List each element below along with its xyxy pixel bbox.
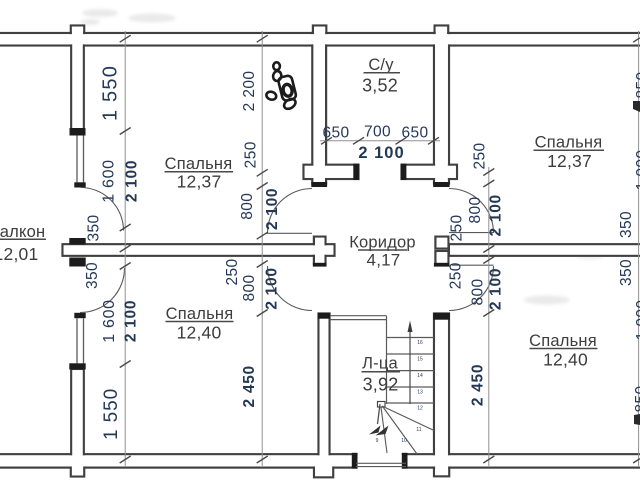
jamb bathroom door left — [353, 164, 359, 180]
svg-text:1 550: 1 550 — [101, 388, 122, 440]
wall: staircase east wall — [434, 314, 449, 468]
wall: middle wall left — [63, 244, 335, 256]
wall: bathroom east wall — [434, 33, 449, 184]
winder tread line 1 — [382, 406, 434, 431]
wall: bathroom west wall — [312, 33, 326, 184]
wall: balcony wall lower segment — [71, 369, 84, 464]
svg-text:800: 800 — [239, 193, 256, 220]
winder tread line 2 — [383, 407, 417, 454]
svg-text:2 450: 2 450 — [470, 364, 487, 406]
wall: bathroom south wall right segment — [402, 165, 458, 179]
svg-text:1 600: 1 600 — [101, 159, 118, 203]
jamb bathroom door right — [401, 164, 407, 180]
svg-text:12,37: 12,37 — [547, 151, 592, 171]
svg-text:10: 10 — [401, 438, 407, 444]
wall: top exterior wall — [0, 33, 640, 46]
jamb balcony wall above mid wall — [69, 238, 85, 245]
svg-text:3,52: 3,52 — [362, 76, 398, 96]
door leaf: corridor top-right — [449, 232, 494, 234]
window sill lines in bottom wall opening — [356, 463, 406, 466]
svg-text:3,92: 3,92 — [363, 375, 399, 395]
svg-text:12,40: 12,40 — [543, 350, 588, 370]
svg-text:350: 350 — [84, 262, 101, 289]
svg-text:Спальня: Спальня — [165, 155, 233, 173]
wall: pilaster above top wall centre — [313, 26, 326, 36]
window: balcony lower window glazing — [77, 318, 84, 363]
svg-text:2 100: 2 100 — [264, 188, 281, 230]
wall: pilaster above mid-left wall end — [314, 237, 326, 249]
jamb balcony window top — [70, 128, 86, 136]
svg-text:1 000: 1 000 — [634, 300, 640, 341]
svg-text:Балкон: Балкон — [0, 223, 45, 241]
dimension line left outer x=125 — [124, 31, 126, 466]
wall: pilaster above mid-right wall end — [435, 237, 448, 249]
jamb bottom opening left — [352, 453, 358, 469]
door leaf: corridor top-left — [267, 232, 313, 234]
door arc: corridor top-left — [268, 189, 313, 234]
svg-text:1 000: 1 000 — [634, 150, 640, 191]
wall: pilaster below mid-left wall end — [314, 251, 326, 264]
svg-text:2 100: 2 100 — [264, 267, 281, 309]
svg-text:800: 800 — [467, 196, 484, 223]
wall: bottom exterior wall — [0, 454, 640, 467]
svg-text:250: 250 — [243, 141, 260, 168]
stair newel post — [378, 402, 386, 408]
svg-text:12,40: 12,40 — [177, 323, 222, 343]
cut tick wedge top right — [633, 101, 640, 112]
jamb balcony lower door — [74, 313, 85, 318]
svg-text:2 100: 2 100 — [124, 160, 141, 202]
dimension line right outer x=638.6 — [638, 31, 640, 466]
svg-text:Спальня: Спальня — [535, 134, 603, 152]
dimension line right inner x=489 — [488, 167, 490, 466]
wall: bathroom south wall left segment — [304, 165, 359, 179]
wall: pilaster above top wall right — [435, 26, 449, 36]
wall: pilaster below bottom wall left — [71, 460, 84, 477]
svg-text:250: 250 — [448, 262, 465, 289]
door arc: corridor bottom-right — [449, 266, 494, 311]
stair landing edge — [330, 316, 387, 320]
svg-text:2 100: 2 100 — [488, 268, 505, 310]
svg-text:2 450: 2 450 — [241, 365, 258, 407]
svg-text:2 100: 2 100 — [123, 300, 140, 342]
svg-text:15: 15 — [417, 357, 423, 363]
jamb balcony lower window top — [69, 363, 85, 369]
svg-text:1 550: 1 550 — [100, 65, 122, 121]
wall: middle wall right — [449, 244, 640, 256]
svg-text:С/у: С/у — [368, 56, 394, 74]
door leaf: corridor bottom-right — [452, 264, 494, 266]
svg-text:1 600: 1 600 — [101, 299, 118, 343]
svg-text:2 200: 2 200 — [241, 71, 258, 112]
stair down arrow with zigzag head — [378, 404, 381, 424]
wall: staircase west wall — [319, 314, 330, 468]
door arc: balcony lower door — [80, 268, 125, 313]
svg-text:12: 12 — [417, 406, 423, 412]
svg-text:800: 800 — [470, 278, 487, 305]
svg-text:650: 650 — [401, 125, 428, 142]
svg-text:800: 800 — [241, 274, 258, 301]
dimension ticks — [120, 35, 640, 463]
wall: pilaster above top wall left — [71, 26, 84, 36]
wall: pilaster below bottom wall right — [434, 460, 449, 476]
svg-text:9: 9 — [376, 438, 379, 444]
svg-text:16: 16 — [417, 340, 423, 346]
dimension line left inner x=262 — [261, 31, 263, 466]
dimension line bathroom width chain — [320, 140, 440, 142]
svg-text:Спальня: Спальня — [166, 305, 234, 323]
opening in bottom wall (stair room door) — [358, 453, 402, 470]
jamb bottom opening right — [402, 453, 408, 469]
jamb below mid-right bump — [434, 263, 450, 267]
svg-text:250: 250 — [472, 142, 489, 169]
svg-text:250: 250 — [449, 214, 466, 241]
svg-text:850: 850 — [633, 385, 640, 412]
svg-text:14: 14 — [417, 373, 423, 379]
door arc: corridor bottom-left — [268, 266, 313, 311]
wall: balcony wall upper segment — [71, 33, 84, 132]
door arc: balcony upper door — [81, 188, 124, 231]
svg-text:350: 350 — [86, 214, 103, 241]
svg-text:Коридор: Коридор — [349, 234, 416, 252]
window: balcony upper window glazing — [77, 136, 84, 183]
jamb staircase east wall cap — [433, 313, 450, 320]
scan smudge artifacts — [80, 9, 604, 305]
svg-text:13: 13 — [417, 390, 423, 396]
jamb balcony window bottom — [74, 182, 85, 187]
wall: pilaster below bottom wall centre — [314, 460, 333, 477]
cut tick wedge bottom right — [634, 414, 640, 425]
svg-text:250: 250 — [224, 258, 241, 285]
svg-text:12,01: 12,01 — [0, 244, 38, 264]
stair up arrow — [409, 330, 411, 404]
stair well edge line — [386, 316, 388, 404]
winder tread line 3 — [381, 407, 387, 453]
svg-text:11: 11 — [416, 427, 421, 433]
jamb below mid-left bump — [313, 263, 327, 267]
jamb balcony wall below mid wall — [69, 258, 85, 267]
jamb staircase west wall cap — [318, 313, 330, 319]
door arc: corridor top-right — [449, 189, 494, 234]
svg-text:350: 350 — [618, 259, 635, 286]
stair treads — [387, 338, 435, 404]
svg-text:Л-ца: Л-ца — [362, 355, 398, 373]
svg-text:850: 850 — [634, 71, 640, 98]
wall: pilaster below mid-right wall end — [435, 251, 448, 264]
jamb west stem tip — [311, 182, 327, 187]
svg-text:Спальня: Спальня — [529, 332, 597, 350]
svg-text:700: 700 — [364, 124, 391, 141]
svg-text:4,17: 4,17 — [367, 251, 401, 270]
svg-text:350: 350 — [618, 211, 635, 238]
toilet plan symbol beside bathroom — [265, 62, 297, 111]
svg-text:2 100: 2 100 — [487, 194, 504, 236]
svg-text:12,37: 12,37 — [177, 172, 222, 192]
jamb east stem tip — [433, 182, 449, 187]
svg-text:2 100: 2 100 — [358, 144, 404, 162]
svg-text:650: 650 — [322, 125, 349, 142]
